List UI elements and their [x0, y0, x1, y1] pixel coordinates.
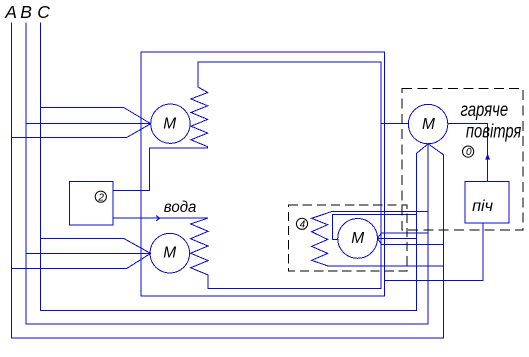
svg-text:М: М: [163, 245, 176, 262]
svg-text:вода: вода: [164, 199, 197, 216]
svg-text:С: С: [37, 2, 50, 22]
svg-text:повітря: повітря: [466, 121, 521, 142]
svg-text:0: 0: [466, 147, 472, 158]
svg-text:В: В: [20, 2, 32, 22]
svg-text:2: 2: [97, 192, 104, 203]
svg-text:А: А: [4, 2, 17, 22]
svg-text:піч: піч: [472, 198, 493, 215]
svg-text:М: М: [351, 230, 364, 247]
svg-text:гаряче: гаряче: [461, 100, 509, 121]
svg-text:М: М: [163, 115, 176, 132]
svg-text:4: 4: [300, 219, 306, 230]
svg-text:М: М: [422, 116, 435, 133]
